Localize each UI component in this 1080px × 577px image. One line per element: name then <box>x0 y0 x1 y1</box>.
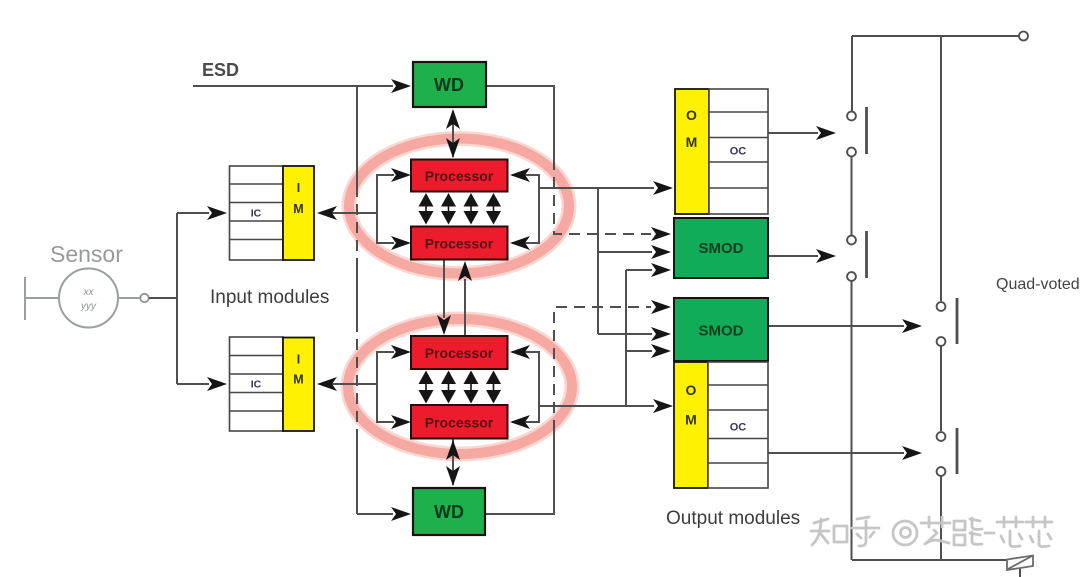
wire ESD vertical drop x357 upper solid <box>356 86 358 186</box>
wire IM1 feedback <box>321 212 377 214</box>
wire x357 lower solid <box>356 430 358 514</box>
svg-text:yyy: yyy <box>80 301 97 312</box>
svg-text:I: I <box>297 353 300 367</box>
wire upper pair output y188 <box>539 187 654 189</box>
svg-text:OC: OC <box>730 422 747 434</box>
arrowheads down-pointing <box>446 138 460 158</box>
arrowheads up-pointing <box>446 109 460 129</box>
box OM1 yellow <box>675 89 709 214</box>
wire Processor2 to Processor3 link down <box>443 260 445 318</box>
interprocessor link lines upper <box>426 195 494 222</box>
svg-text:M: M <box>293 373 303 387</box>
wire SMOD1 arrow3 <box>626 269 652 271</box>
terminal circle top right <box>1019 32 1028 41</box>
wire sensor branch vertical x177 <box>176 213 178 384</box>
box OM2 yellow <box>674 362 708 488</box>
IC2 row dividers <box>230 356 284 412</box>
wire contact column1 segment c <box>851 281 853 560</box>
svg-text:SMOD: SMOD <box>699 240 744 257</box>
wire WD2 right to x554 <box>485 429 554 514</box>
arrowheads left-pointing <box>317 206 337 220</box>
box OM2 channels <box>708 362 768 488</box>
wire dashed WD1 to SMOD1 <box>554 159 651 234</box>
wire lower pair output y406 <box>540 405 654 407</box>
wire upper right loop <box>512 175 539 243</box>
wire ESD horizontal <box>193 85 393 87</box>
wire branch to IC2 <box>177 383 209 385</box>
svg-text:xx: xx <box>83 287 95 298</box>
svg-text:SMOD: SMOD <box>699 323 744 340</box>
contact K4 bar <box>956 428 959 474</box>
watermark zhihu <box>811 517 1052 547</box>
box IM2 <box>283 338 314 432</box>
svg-text:O: O <box>686 107 697 123</box>
wire WD1 right to x554 <box>486 86 554 161</box>
watermark char hu <box>852 517 879 546</box>
wire into WD2 <box>357 513 393 515</box>
wire SMOD1 arrow2 <box>598 251 652 253</box>
wire SMOD2 output <box>768 325 904 327</box>
svg-text:WD: WD <box>434 75 464 95</box>
svg-text:M: M <box>685 412 697 428</box>
contact K2 circles <box>847 236 856 245</box>
wire vertical x626 <box>625 270 627 407</box>
contact K2 bar <box>865 231 868 278</box>
wire dashed WD2 to SMOD2 <box>554 307 651 431</box>
wire contact column2 segment c <box>940 476 942 560</box>
wire x357 dashed through lower pair <box>356 321 358 430</box>
svg-text:Quad-voted: Quad-voted <box>996 276 1080 293</box>
svg-text:Output modules: Output modules <box>666 508 800 529</box>
svg-text:IC: IC <box>251 379 262 391</box>
wire sensor left lead <box>25 297 60 299</box>
svg-text:OC: OC <box>730 146 747 158</box>
watermark char zhi1 <box>811 519 847 545</box>
svg-text:ESD: ESD <box>202 60 239 80</box>
contact K4 circles <box>937 432 946 441</box>
box OM1 channels <box>709 89 768 214</box>
wire sensor right lead <box>118 297 140 299</box>
redundancy ring 2 (lower processor pair) <box>348 319 572 454</box>
wire SMOD2 arrow2 <box>598 333 652 335</box>
wire OM2 output <box>768 452 904 454</box>
IC1 row dividers <box>230 184 284 240</box>
arrowheads right-pointing <box>391 79 411 93</box>
svg-text:IC: IC <box>251 208 262 220</box>
wire lower right loop <box>512 352 539 422</box>
box IM1 <box>283 166 314 260</box>
contact K1 circles <box>847 112 856 121</box>
wire bottom rail <box>852 559 1007 561</box>
svg-text:O: O <box>686 382 697 398</box>
wire branch to IC1 <box>177 212 209 214</box>
box Processor 2 <box>411 227 508 260</box>
svg-text:I: I <box>297 181 300 195</box>
wire SMOD1 output <box>768 255 818 257</box>
actuator symbol <box>1007 556 1033 571</box>
box SMOD1 <box>674 218 768 278</box>
wire contact column1 segment a <box>851 36 853 111</box>
wire contact column1 segment b <box>851 157 853 235</box>
wire contact column2 segment b <box>940 346 942 431</box>
wire WD1 to Processor1 link <box>452 111 454 157</box>
sensor lead tick <box>24 277 26 320</box>
watermark char xin2 <box>1026 517 1052 547</box>
box Processor 1 <box>411 160 508 192</box>
wire Processor4 to WD2 link <box>452 438 454 485</box>
wire vertical x598 <box>597 188 599 334</box>
node circle sensor output <box>140 294 148 302</box>
watermark char xin1 <box>997 517 1023 547</box>
watermark char hyphen <box>985 532 994 535</box>
redundancy ring 1 (upper processor pair) <box>349 139 569 274</box>
wire node to branch <box>149 297 178 299</box>
svg-text:Input modules: Input modules <box>210 287 329 308</box>
box WD1 <box>413 62 486 107</box>
wire top rail <box>852 35 1019 37</box>
contact K3 circles <box>937 302 946 311</box>
interprocessor diamond arrows lower <box>419 371 434 385</box>
watermark char zhi2 <box>921 517 950 544</box>
watermark char neng <box>954 518 982 545</box>
svg-text:Sensor: Sensor <box>50 241 123 267</box>
wire IM2 feedback <box>321 383 377 385</box>
box IC1 <box>230 166 284 260</box>
contact K3 bar <box>956 298 959 344</box>
box Processor 4 <box>411 405 508 439</box>
box SMOD2 <box>674 298 768 361</box>
wire Processor3 to Processor2 link up <box>464 279 466 336</box>
wire contact column2 segment a <box>940 36 942 301</box>
wire actuator stub <box>1019 568 1021 577</box>
box IC2 <box>230 337 284 431</box>
svg-text:Processor: Processor <box>425 415 494 431</box>
contact K1 bar <box>865 107 868 154</box>
wire x357 dashed through upper pair <box>356 186 358 259</box>
wire x357 middle solid <box>356 259 358 321</box>
interprocessor link lines lower <box>426 372 494 402</box>
interprocessor diamond arrows upper <box>419 193 434 207</box>
svg-text:WD: WD <box>434 502 464 522</box>
watermark char at <box>893 521 917 545</box>
svg-text:M: M <box>293 202 303 216</box>
svg-text:Processor: Processor <box>425 168 494 184</box>
wire upper left loop <box>377 175 394 243</box>
svg-text:Processor: Processor <box>425 236 494 252</box>
sensor circle <box>59 269 118 328</box>
box Processor 3 <box>411 336 508 369</box>
wire lower left loop <box>377 352 394 422</box>
box WD2 <box>413 488 485 535</box>
wire OM1 output <box>768 132 818 134</box>
svg-text:Processor: Processor <box>425 345 494 361</box>
wire SMOD2 arrow3 <box>626 350 652 352</box>
svg-text:M: M <box>686 134 698 150</box>
